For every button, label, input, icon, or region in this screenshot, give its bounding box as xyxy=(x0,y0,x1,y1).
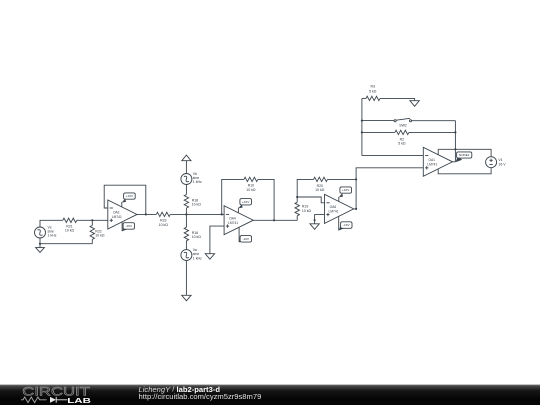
wire R20 to riser xyxy=(328,178,357,180)
wire R23 to OA4 minus input xyxy=(170,213,224,215)
svg-text:10 kΩ: 10 kΩ xyxy=(159,223,169,227)
svg-text:OA4: OA4 xyxy=(229,216,236,220)
node SW2 left xyxy=(361,120,363,122)
voltage source V1 xyxy=(486,157,507,168)
node center B xyxy=(185,213,187,215)
node OA4 output xyxy=(273,219,275,221)
ground below Vs xyxy=(36,244,45,253)
resistor R19 xyxy=(295,202,312,216)
wire OA6 plus to ground xyxy=(315,215,325,224)
node R21/R22 xyxy=(91,219,93,221)
svg-text:LM741: LM741 xyxy=(228,221,238,225)
svg-text:LM741: LM741 xyxy=(112,215,122,219)
node R2 left xyxy=(361,131,363,133)
svg-text:10 kΩ: 10 kΩ xyxy=(302,209,312,213)
switch SW2 xyxy=(394,118,412,127)
svg-text:-16V: -16V xyxy=(343,223,350,227)
node R20 right xyxy=(355,178,357,180)
svg-text:1 kHz: 1 kHz xyxy=(193,256,202,260)
node R19/R20 xyxy=(296,196,298,198)
ground flipped above Vb xyxy=(182,155,191,173)
svg-text:5 kΩ: 5 kΩ xyxy=(369,89,377,93)
footer bar xyxy=(0,384,540,405)
power flag +16V OA2 xyxy=(122,193,135,207)
svg-text:1 kHz: 1 kHz xyxy=(48,234,57,238)
ground R3 xyxy=(410,101,419,107)
svg-text:10 kΩ: 10 kΩ xyxy=(95,233,105,237)
op-amp OA6 LM741 xyxy=(325,194,354,223)
wire OA4 feedback loop left+top xyxy=(222,179,244,214)
node riser/top rail xyxy=(454,148,456,150)
wire Vb to R18 xyxy=(185,185,187,195)
node OA6 output xyxy=(355,208,357,210)
svg-text:V1: V1 xyxy=(498,158,502,162)
svg-text:LM741: LM741 xyxy=(329,210,339,214)
svg-text:LAB: LAB xyxy=(67,396,91,405)
wire SW2 branch right xyxy=(412,120,456,122)
wire R2 branch right xyxy=(409,131,456,133)
wire OA2 feedback loop xyxy=(104,185,146,214)
svg-text:NODE1: NODE1 xyxy=(459,153,470,157)
svg-text:10 kΩ: 10 kΩ xyxy=(192,235,202,239)
voltage source Vb xyxy=(181,172,202,185)
node R2 right xyxy=(454,131,456,133)
resistor R3 xyxy=(366,85,380,101)
wire R18 to node B xyxy=(185,208,187,214)
ground OA4 xyxy=(205,254,214,260)
resistor R16 xyxy=(184,227,201,241)
resistor R22 xyxy=(90,220,105,243)
power flag -16V OA4 xyxy=(239,227,251,242)
op-amp OA1 LM741 xyxy=(423,147,452,176)
wire R2 branch left xyxy=(362,131,395,133)
wire OA1 output stub xyxy=(453,161,456,163)
wire OA1 left vertical xyxy=(361,98,363,155)
node OA4 feedback left xyxy=(221,213,223,215)
svg-text:R3: R3 xyxy=(371,85,376,89)
node flag NODE1 xyxy=(455,152,471,162)
op-amp OA2 LM741 xyxy=(108,200,137,229)
power flag +16V OA6 xyxy=(339,187,352,202)
svg-text:LM741: LM741 xyxy=(427,163,437,167)
wire R19 riser from OA4 output xyxy=(296,216,298,221)
svg-text:-16V: -16V xyxy=(243,237,250,241)
svg-text:+16V: +16V xyxy=(342,188,350,192)
ground OA6 xyxy=(310,219,319,229)
wire Va to ground xyxy=(185,261,187,296)
resistor R20 xyxy=(314,177,328,192)
resistor R18 xyxy=(184,195,201,209)
wire Vs top to R21 xyxy=(40,220,63,227)
wire OA4 feedback loop right xyxy=(258,179,274,220)
op-amp OA4 LM741 xyxy=(224,206,253,235)
wire R3 branch left xyxy=(362,97,366,99)
wire OA6 feedback left+top xyxy=(297,179,313,197)
svg-text:http://circuitlab.com/cyzm5zr9: http://circuitlab.com/cyzm5zr9s8m79 xyxy=(139,392,262,401)
svg-text:-16V: -16V xyxy=(126,224,133,228)
power flag -16V OA6 xyxy=(339,216,352,230)
resistor R2 xyxy=(395,130,409,145)
wire OA2 output xyxy=(137,213,156,215)
wire OA1 feedback right vertical xyxy=(454,121,456,162)
power flag -16V OA2 xyxy=(122,222,134,231)
svg-text:OA1: OA1 xyxy=(428,158,435,162)
svg-text:OA2: OA2 xyxy=(113,211,120,215)
wire OA4 output xyxy=(253,219,297,221)
svg-text:10 kΩ: 10 kΩ xyxy=(246,188,256,192)
wire OA4 plus to ground xyxy=(210,226,224,254)
wire R21 to OA2 plus input xyxy=(77,219,108,221)
wire node B to R16 xyxy=(185,214,187,227)
voltage source Va xyxy=(181,248,202,261)
power flag +16V OA4 xyxy=(238,199,251,213)
ground below Va xyxy=(182,295,191,301)
svg-text:1 kHz: 1 kHz xyxy=(193,180,202,184)
wire R19 top to node xyxy=(296,197,298,202)
svg-text:+16V: +16V xyxy=(242,200,250,204)
svg-text:OA6: OA6 xyxy=(330,205,337,209)
resistor R23 xyxy=(156,212,170,227)
svg-text:10 kΩ: 10 kΩ xyxy=(65,229,75,233)
wire OA6 minus jog xyxy=(297,197,324,203)
wire OA6 output riser to OA1 plus xyxy=(353,168,424,209)
wire OA1 minus input xyxy=(362,155,423,157)
wire R3 to ground xyxy=(380,98,415,100)
resistor R10 xyxy=(244,177,258,192)
svg-text:SW2: SW2 xyxy=(399,123,407,127)
node OA2 output xyxy=(145,213,147,215)
wire V1 loop xyxy=(438,149,491,174)
svg-text:+16V: +16V xyxy=(126,194,134,198)
svg-text:16 V: 16 V xyxy=(498,163,506,167)
wire SW2 branch left xyxy=(362,120,394,122)
junction Vs bottom xyxy=(39,243,41,245)
wire R16 to Va xyxy=(185,241,187,250)
wire bottom rail Vs to R22 xyxy=(40,238,92,244)
svg-text:10 kΩ: 10 kΩ xyxy=(315,188,325,192)
resistor R21 xyxy=(63,218,77,233)
svg-text:5 kΩ: 5 kΩ xyxy=(398,142,406,146)
voltage source Vs xyxy=(35,226,57,239)
svg-text:R19: R19 xyxy=(302,205,308,209)
svg-text:10 kΩ: 10 kΩ xyxy=(192,203,202,207)
